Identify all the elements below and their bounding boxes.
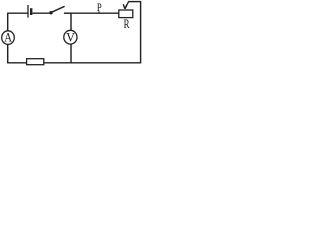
rheostat R: slider arrow shaft bbox=[125, 2, 129, 9]
node P tick bbox=[98, 11, 100, 13]
switch S: open blade bbox=[52, 6, 65, 12]
svg-text:R: R bbox=[124, 17, 130, 31]
rheostat R: body box bbox=[119, 10, 133, 18]
rheostat R: slider arrowhead bbox=[123, 4, 127, 9]
wire: voltmeter junction to rheostat (through node P) bbox=[71, 12, 120, 14]
ammeter A: meter circle bbox=[2, 31, 15, 45]
svg-text:A: A bbox=[4, 30, 12, 44]
wire: top-left horizontal (corner to battery +) bbox=[7, 12, 28, 14]
wire: switch to voltmeter junction bbox=[64, 12, 72, 14]
wire: bottom horizontal (left corner to resistor) bbox=[7, 62, 27, 64]
wire: right vertical (top-right corner down to bottom-right corner) bbox=[140, 2, 142, 63]
node P label bbox=[97, 0, 102, 14]
ammeter A: letter bbox=[4, 30, 12, 44]
wire: left vertical upper segment (corner to ammeter) bbox=[7, 13, 9, 31]
wire: battery to switch bbox=[32, 12, 49, 14]
battery (cell): long positive plate bbox=[27, 5, 29, 18]
wire: resistor to voltmeter bottom junction bbox=[44, 62, 72, 64]
wire: slider arm top horizontal to top-right corner bbox=[128, 1, 141, 3]
voltmeter V: meter circle bbox=[64, 30, 77, 44]
wire: left vertical lower segment (ammeter to bottom corner) bbox=[7, 44, 9, 63]
svg-text:V: V bbox=[66, 30, 75, 44]
resistor: body box on bottom wire bbox=[27, 59, 44, 65]
voltmeter V: bottom branch wire bbox=[70, 44, 72, 63]
wire: voltmeter junction to bottom-right corner bbox=[71, 62, 142, 64]
voltmeter V: top branch wire bbox=[70, 13, 72, 31]
switch S: left pivot contact dot bbox=[49, 11, 52, 14]
voltmeter V: letter bbox=[66, 30, 75, 44]
R value label bbox=[124, 17, 130, 31]
battery (cell): short thick negative plate bbox=[30, 8, 32, 15]
